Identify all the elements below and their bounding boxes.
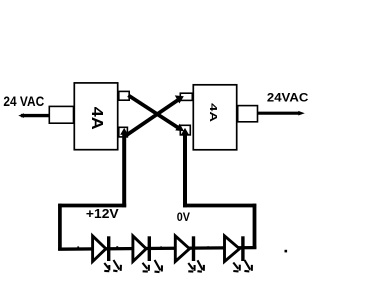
- wire diagonal D2 from T3 to T4: [126, 99, 179, 135]
- LED D6 triangle: [225, 236, 240, 262]
- arrowhead D1 at T5: [175, 124, 184, 132]
- arrowhead right lead tip: [298, 111, 305, 116]
- junction tick on rail: [207, 246, 209, 249]
- svg-text:+12V: +12V: [86, 207, 119, 221]
- junction tick on rail: [116, 246, 118, 249]
- arrowhead left lead tip: [18, 113, 24, 118]
- LED D4 emission arrows: [143, 260, 163, 272]
- LED D6 cathode bar: [241, 236, 244, 261]
- junction tick on rail: [160, 246, 162, 248]
- wire vertical +12V drop from T3: [122, 133, 126, 207]
- terminal T2 (top right of F1): [119, 91, 129, 100]
- svg-text:4A: 4A: [208, 103, 219, 122]
- stray dot: [285, 250, 288, 253]
- LED D5 cathode bar: [192, 236, 195, 261]
- fuse F2 box: [193, 85, 236, 150]
- arrowhead D2 at T4: [175, 95, 184, 103]
- terminal T4 (top left of F2): [180, 93, 192, 100]
- LED D5 triangle: [175, 236, 189, 262]
- wire loop right side: [253, 204, 257, 249]
- LED D5 emission arrows: [188, 260, 204, 271]
- fuse F1 box: [74, 83, 117, 150]
- svg-text:4A: 4A: [88, 107, 106, 130]
- wire vertical 0V drop from T5: [183, 133, 187, 207]
- terminal T5 (bottom left of F2): [180, 125, 190, 135]
- svg-text:24VAC: 24VAC: [267, 91, 308, 104]
- wire loop top left segment: [58, 204, 126, 208]
- wire right 24VAC lead: [258, 112, 301, 115]
- LED D3 emission arrows: [104, 260, 121, 271]
- terminal T3 (bottom right of F1): [119, 127, 128, 137]
- LED D6 emission arrows: [233, 260, 252, 271]
- LED D3 cathode bar: [107, 236, 110, 261]
- wire diagonal D1 from T2 to T5: [128, 95, 179, 128]
- LED D4 cathode bar: [148, 236, 151, 261]
- terminal T1 (left input of F1): [49, 106, 73, 123]
- svg-text:0V: 0V: [177, 212, 191, 225]
- wire loop left side: [58, 204, 62, 251]
- LED D3 triangle: [93, 236, 106, 262]
- LED D4 triangle: [133, 236, 146, 262]
- wire bottom rail with LEDs: [58, 248, 256, 250]
- terminal T6 (right output of F2): [238, 106, 258, 122]
- wire loop top right segment: [183, 204, 256, 208]
- arrowhead up into T3: [120, 128, 128, 135]
- svg-text:24 VAC: 24 VAC: [3, 93, 44, 109]
- wire left 24VAC lead: [21, 114, 49, 117]
- junction tick on rail: [77, 246, 79, 248]
- arrowhead up into T5: [181, 128, 189, 135]
